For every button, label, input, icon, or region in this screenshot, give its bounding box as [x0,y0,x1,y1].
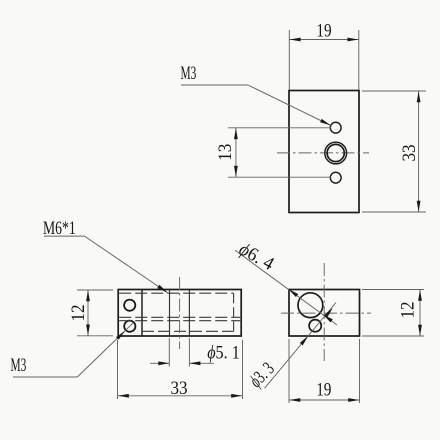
svg-text:33: 33 [170,377,187,398]
hole 3.3 circle (end view) [309,320,321,332]
svg-text:M3: M3 [11,355,27,376]
hidden line bottom (side view) [142,330,234,332]
top view block outline [289,91,359,213]
svg-text:M3: M3 [181,63,197,84]
svg-text:19: 19 [316,20,331,41]
dimension 12 (left) dimension line [87,290,89,336]
side view step divider line [141,290,143,337]
dimension 5.1 dimension line with inward arrows [150,362,169,364]
vertical centerline (side view) [179,277,181,349]
svg-text:ϕ5. 1: ϕ5. 1 [207,341,240,363]
end view block outline [289,290,360,337]
dimension 19 (bottom right) dimension line [289,399,360,401]
hidden line vertical hole end (side view) [233,293,235,331]
M3 side hole upper circle [124,300,135,311]
vertical hole line right (5.1 bore) [188,290,190,336]
end view horizontal centerline [281,312,371,314]
svg-text:33: 33 [398,144,419,161]
dimension 33 (bottom) dimension line [118,395,243,397]
dimension 19 (top) extension lines [288,30,290,90]
dimension 12 (right) extension lines [362,289,424,291]
dimension 13 dimension line [235,128,237,177]
hole M6 center outer circle (top view) [325,142,347,164]
svg-text:13: 13 [214,144,235,161]
vertical hole line left (5.1 bore) [169,290,171,336]
dimension 13 (top view) extension lines [228,127,331,129]
hidden line top (side view) [119,292,233,294]
dimension 19 (bottom right) extension lines [288,339,290,403]
side view block outline [118,290,241,337]
hole M3 upper (top view) [330,122,341,133]
leader line for 3.3 [265,303,337,389]
svg-text:ϕ3. 3: ϕ3. 3 [245,358,278,391]
dimension 19 (top) dimension line [289,39,359,41]
hidden line middle upper (side view) [119,316,240,318]
svg-text:ϕ6. 4: ϕ6. 4 [235,238,277,274]
leader line for 6.4 [235,250,337,325]
dimension 12 (left) extension lines [77,289,113,291]
end view vertical centerline [323,263,325,361]
hole M6 center inner circle (top view) [327,144,344,161]
dimension 33 (right of top view) extension lines [362,90,426,92]
svg-text:12: 12 [397,301,418,318]
hole M3 lower (top view) [330,172,341,183]
leader line M3 (top) [181,84,248,86]
hidden line middle lower (side view) [119,320,240,322]
svg-text:12: 12 [67,304,88,321]
svg-text:M6*1: M6*1 [43,217,76,239]
hole 6.4 circle (end view) [298,293,323,318]
M3 side hole lower circle [124,321,135,332]
dimension 33 (bottom) extension lines [117,340,119,399]
top view horizontal centerline [277,152,369,154]
dimension 5.1 extension lines [168,338,170,367]
dimension 12 (right) dimension line [419,290,421,337]
svg-text:19: 19 [316,379,331,400]
dimension 33 (right) dimension line [418,91,420,212]
